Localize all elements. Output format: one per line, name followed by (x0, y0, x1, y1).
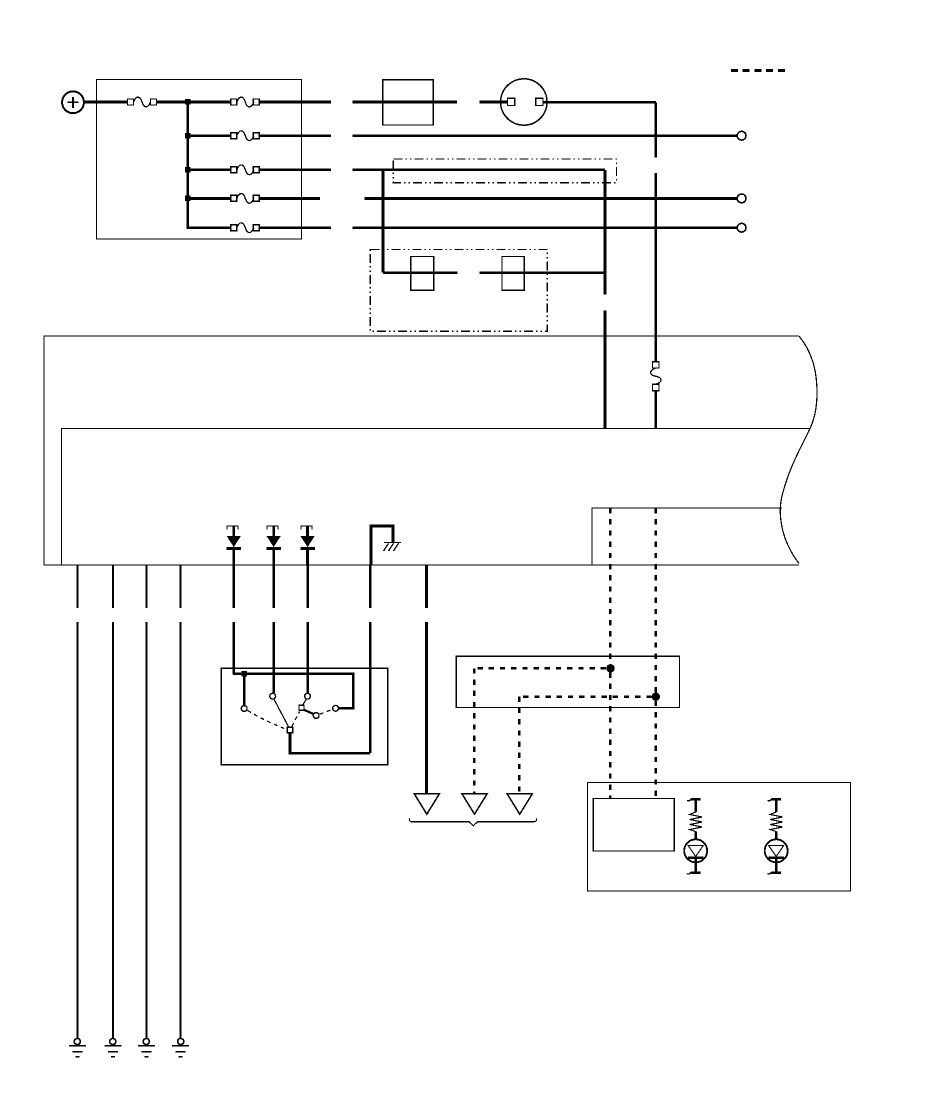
switch junction dot (242, 671, 248, 677)
relay contact K2 (502, 256, 524, 290)
wire row1 harness segment (353, 101, 457, 104)
arrow A3 (507, 794, 532, 815)
wire ECU pin to arrow1 (425, 565, 428, 793)
ECU pin wire 4 (180, 565, 182, 1039)
fuse F7 vertical (651, 362, 662, 391)
switch wiper dashed E-F (320, 710, 332, 715)
wire relay row left (383, 271, 457, 274)
ECU pin wire 3 (145, 565, 147, 1039)
wire bus to fuse F4 (188, 168, 231, 171)
switch wiper solid (274, 699, 289, 727)
connector C2 (737, 194, 746, 203)
dashed wire J2 to lamp unit (655, 701, 657, 799)
internal ground G1 (371, 526, 401, 565)
dashed wire down to arrow3 (518, 697, 520, 793)
wire relay row right (479, 271, 605, 274)
wire ground pin to switch (369, 565, 372, 753)
wire row1 to motor (479, 101, 508, 104)
wire bus to fuse F5 (188, 197, 231, 200)
switch contact B (270, 693, 276, 699)
ground G5 (172, 1038, 189, 1057)
dash-dot relay box D2 (370, 250, 547, 332)
wire diode2 to switch (272, 565, 275, 693)
dashed wire J2 left (519, 696, 651, 698)
switch wiper link D-E (304, 710, 313, 714)
fuse F5 (231, 194, 259, 204)
wire bus to fuse F2 (188, 101, 231, 104)
fuse F2 (231, 97, 259, 107)
ground G4 (138, 1038, 155, 1057)
switch wiper link C-D (303, 699, 307, 705)
wire row5 to connector (353, 226, 738, 229)
lamp module box (587, 783, 850, 891)
node J2 (652, 693, 660, 701)
wire row4 out of fusebox (259, 197, 320, 200)
dashed wire J1 left (474, 667, 606, 669)
junction dot row2 (185, 133, 191, 139)
switch contact A (241, 706, 247, 712)
connector C3 (737, 223, 746, 232)
switch output wire (290, 733, 370, 753)
wire row1 out of fusebox (259, 101, 331, 104)
wire diode1 to switch (233, 565, 236, 674)
LED L1 (684, 839, 707, 874)
node J1 (606, 664, 614, 672)
wire row3 out of fusebox (259, 168, 331, 171)
arrow A2 (462, 794, 487, 815)
motor M1 (501, 79, 547, 125)
dashed rect junction block R2 (456, 656, 679, 707)
wire V2 lower (654, 391, 657, 429)
ECU box outline (44, 336, 817, 565)
switch wiper dashed to A (248, 711, 288, 730)
switch pivot (287, 727, 293, 733)
switch wiper dashed to D (292, 712, 300, 727)
wire battery to fusebox (84, 101, 128, 104)
arrow A1 (414, 794, 439, 815)
diode D2 (266, 526, 281, 565)
fuse F6 (231, 223, 259, 233)
ECU inner partition (62, 428, 811, 565)
component box B1 (383, 80, 433, 125)
dashed wire from notch 2 (655, 508, 657, 693)
ECU pin wire 1 (76, 565, 78, 1039)
wire vertical V2 upper (654, 102, 657, 361)
switch contact stem A (243, 674, 246, 705)
dashed wire down to arrow2 (473, 668, 475, 793)
connector C1 (737, 131, 746, 140)
switch box S1 (221, 668, 387, 765)
relay contact K1 (411, 256, 434, 290)
wire motor to corner (543, 101, 656, 104)
wire fuse F1 to bus (157, 101, 190, 104)
wire row2 out of fusebox (259, 134, 331, 137)
wire bus bottom to fuse F6 (186, 226, 231, 229)
wire row4 to connector (364, 197, 737, 200)
resistor R1 (687, 799, 702, 839)
ground G3 (104, 1038, 121, 1057)
dashed wire J1 to lamp unit (609, 673, 611, 799)
diode D3 (300, 526, 315, 565)
battery B+ (62, 91, 84, 113)
bus vertical (186, 102, 189, 228)
top right dashed mark (731, 69, 786, 72)
ground G2 (69, 1038, 86, 1057)
dashed wire from notch 1 (609, 508, 611, 664)
ECU notch (592, 508, 782, 565)
switch contact C (305, 693, 311, 699)
wire branch vertical x383 (382, 170, 385, 273)
wire row2 to connector (353, 134, 738, 137)
LED L2 (765, 839, 788, 874)
wire bus to fuse F3 (188, 134, 231, 137)
switch contact D (299, 705, 304, 710)
diode D1 (227, 526, 242, 565)
wire row5 out of fusebox (259, 226, 331, 229)
ECU pin wire 2 (112, 565, 114, 1039)
switch feed bar (233, 674, 353, 709)
fuse F3 (231, 131, 259, 141)
switch contact E (313, 713, 319, 719)
resistor R2 (768, 799, 783, 839)
fusebox (97, 80, 302, 240)
wire row3 harness segment (353, 168, 605, 171)
wire vertical V1 (604, 170, 607, 429)
junction dot row3 (185, 167, 191, 173)
fuse F1 (128, 97, 157, 107)
switch contact F (333, 705, 339, 711)
control unit rect (593, 798, 674, 851)
junction dot row1 (185, 99, 191, 105)
fuse F4 (231, 165, 259, 175)
junction dot row4 (185, 196, 191, 202)
wire diode3 to switch (306, 565, 309, 693)
arrows underline (409, 818, 536, 825)
dash-dot shield box D1 (393, 159, 616, 183)
